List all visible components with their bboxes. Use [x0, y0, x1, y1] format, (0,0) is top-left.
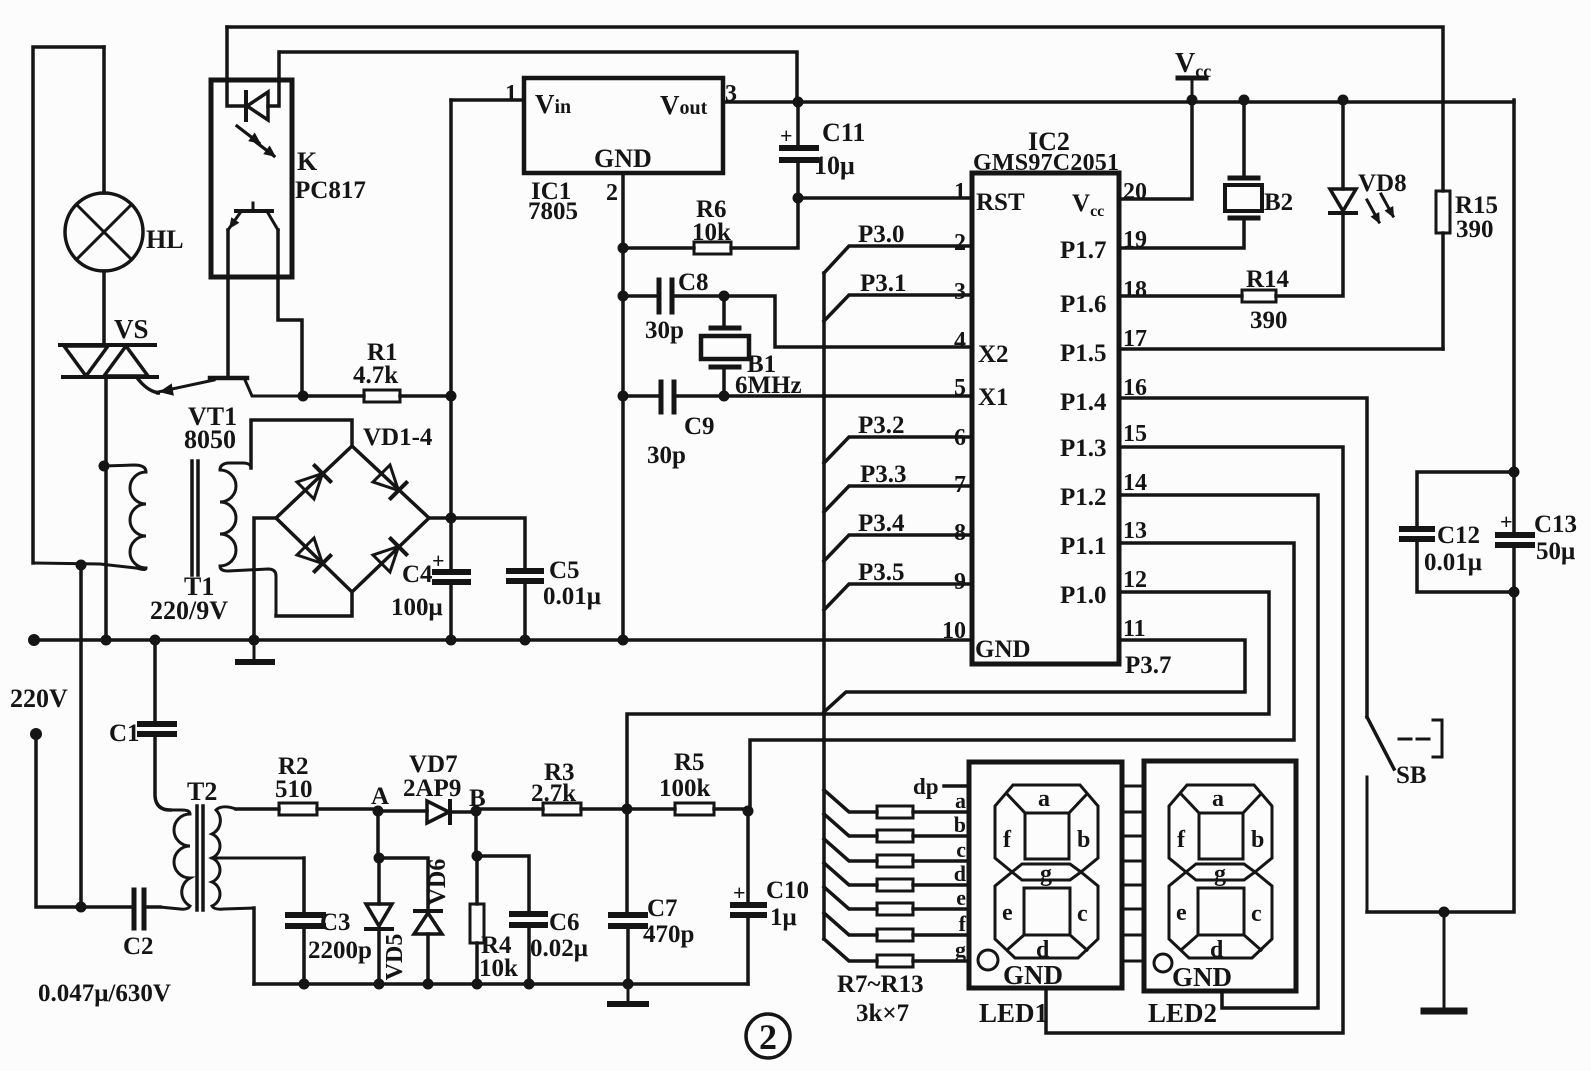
- wire: opto LED anode up to rail 2: [268, 52, 279, 106]
- resistor R5: [675, 803, 714, 815]
- triac VS: [60, 345, 157, 377]
- svg-text:X2: X2: [978, 341, 1009, 368]
- svg-text:8: 8: [954, 520, 966, 546]
- wire: opto LED cathode from top rail: [227, 27, 244, 106]
- resonator B2: [1225, 178, 1262, 218]
- wire: P1.4 pin16 to switch SB: [1119, 398, 1367, 717]
- diode VD6: [414, 911, 442, 934]
- svg-text:C12: C12: [1437, 522, 1480, 549]
- diode VD4 (bottom to right): [373, 539, 406, 572]
- resistor R6: [694, 242, 731, 254]
- svg-text:P1.6: P1.6: [1060, 291, 1107, 318]
- svg-text:d: d: [1210, 937, 1224, 963]
- svg-text:1μ: 1μ: [770, 904, 797, 931]
- svg-text:4: 4: [954, 328, 966, 354]
- svg-text:dp: dp: [913, 774, 939, 799]
- bridge diamond VD1-4: [276, 446, 429, 592]
- svg-text:f: f: [959, 911, 967, 936]
- svg-text:P1.5: P1.5: [1060, 340, 1107, 367]
- svg-text:9: 9: [954, 569, 966, 595]
- wire: P3.2 stub pin6: [824, 437, 972, 463]
- svg-text:a: a: [1038, 786, 1050, 812]
- svg-text:GND: GND: [975, 636, 1031, 663]
- svg-text:4.7k: 4.7k: [353, 362, 398, 389]
- crystal B1 6MHz: [701, 328, 749, 367]
- svg-text:C13: C13: [1534, 511, 1577, 538]
- wire: R3 to C7 node and R5: [581, 807, 675, 811]
- wire: node A down: [376, 811, 380, 858]
- svg-text:C4: C4: [402, 561, 433, 588]
- wire: bus to C1: [153, 640, 157, 721]
- svg-text:20: 20: [1123, 179, 1147, 205]
- svg-text:100μ: 100μ: [391, 594, 443, 621]
- wire: RST node to pin1: [798, 196, 972, 200]
- svg-text:LED2: LED2: [1148, 998, 1217, 1028]
- transformer T2: [160, 806, 304, 910]
- VD8 light arrows: [1367, 194, 1393, 222]
- wire: VD5 to rail: [377, 930, 381, 984]
- wire: C13 down to switch return: [1367, 548, 1514, 912]
- wire: B branch to C6: [477, 856, 529, 911]
- svg-text:f: f: [1177, 827, 1186, 853]
- resistor R12: [877, 929, 913, 941]
- svg-text:X1: X1: [978, 384, 1009, 411]
- wire: +5V to B2: [1242, 100, 1246, 176]
- wire: bus tap segment a: [824, 790, 877, 812]
- wire: P3.5 stub pin9: [824, 584, 972, 610]
- wire: P3.0 stub pin2: [824, 246, 972, 273]
- wire: R2 to node A: [317, 807, 378, 811]
- wire: +9V rail (Vin column): [449, 100, 453, 568]
- svg-text:RST: RST: [976, 189, 1025, 216]
- display LED2 body: [1144, 761, 1296, 991]
- svg-text:C7: C7: [647, 895, 678, 922]
- optocoupler K body: [211, 80, 292, 277]
- resistor R1: [364, 390, 400, 402]
- wire: 220V leg B to C2: [36, 734, 131, 907]
- svg-text:P1.4: P1.4: [1060, 389, 1107, 416]
- wire: VD6 to rail: [426, 934, 430, 984]
- switch SB: [1367, 717, 1442, 912]
- capacitor C6: [512, 914, 545, 925]
- capacitor C1: [140, 724, 174, 734]
- wire: node to B1 top: [722, 296, 726, 325]
- wire: B to R3: [476, 807, 543, 811]
- wire: +5V to C11: [796, 102, 800, 145]
- svg-text:C10: C10: [766, 877, 809, 904]
- resistor R8: [877, 830, 913, 842]
- wire: top rail 1 to R15: [227, 27, 1443, 191]
- resistor R3: [543, 803, 581, 815]
- svg-text:50μ: 50μ: [1536, 538, 1575, 565]
- opto LED diode: [246, 92, 268, 120]
- wire: P1.0 pin12 to R3/R5 node: [627, 592, 1269, 809]
- wire: T1 secondary bottom to bridge AC2: [276, 592, 352, 616]
- capacitor C12: [1402, 529, 1432, 539]
- svg-text:GMS97C2051: GMS97C2051: [973, 150, 1119, 176]
- svg-text:1: 1: [954, 179, 966, 205]
- ground symbol at bus: [238, 640, 272, 662]
- wire: B1 bottom to X1 node: [722, 370, 726, 396]
- opto light arrows: [237, 126, 274, 156]
- svg-text:10μ: 10μ: [814, 151, 855, 180]
- svg-text:SB: SB: [1396, 762, 1427, 789]
- svg-text:a: a: [1212, 786, 1224, 812]
- wire: C6 to rail: [527, 928, 531, 984]
- diode VD1 (lower-left to top): [297, 466, 330, 499]
- wire: VD7 to node B: [450, 810, 476, 814]
- diode VD2 (top to right): [373, 465, 406, 498]
- svg-text:3k×7: 3k×7: [856, 1000, 909, 1027]
- svg-text:C8: C8: [678, 269, 709, 296]
- wire: detector ground rail: [254, 982, 748, 986]
- wire: R5 to C10 node: [714, 807, 748, 811]
- svg-text:11: 11: [1123, 616, 1146, 642]
- wire: bus tap segment e: [824, 887, 877, 909]
- wire: R10 to LED1 pin d: [913, 883, 969, 887]
- wire: lamp to triac: [102, 271, 106, 345]
- ground symbol bottom right: [1424, 912, 1464, 1011]
- diode VD7 2AP9: [427, 801, 450, 823]
- resistor R10: [877, 879, 913, 891]
- capacitor C7: [611, 915, 645, 926]
- wire: C10 node down: [746, 811, 750, 902]
- svg-text:2AP9: 2AP9: [403, 775, 461, 802]
- wire: C2 to T2 primary: [146, 905, 160, 909]
- LED2 decimal point: [1154, 954, 1172, 972]
- svg-text:30p: 30p: [647, 442, 686, 469]
- svg-text:R7~R13: R7~R13: [837, 971, 924, 998]
- wire: C9 to X1 node: [676, 394, 724, 398]
- resistor R11: [877, 903, 913, 915]
- svg-text:C6: C6: [549, 909, 580, 936]
- wire: left 220V rail up and over to lamp: [33, 47, 104, 563]
- svg-text:13: 13: [1123, 518, 1147, 544]
- svg-text:100k: 100k: [659, 775, 711, 802]
- terminal 220V leg B: [30, 728, 42, 740]
- svg-text:C2: C2: [123, 933, 154, 960]
- capacitor C5: [509, 571, 541, 581]
- LED VD8: [1330, 189, 1356, 213]
- wire: bus tap segment b: [824, 814, 877, 836]
- wire: GND column to R6: [623, 246, 694, 250]
- svg-text:P3.4: P3.4: [858, 510, 905, 537]
- wire: T2 tap to C3: [302, 858, 306, 912]
- wire: C7 to rail: [626, 929, 630, 984]
- wire: C10 to rail: [746, 918, 750, 984]
- svg-text:15: 15: [1123, 421, 1147, 447]
- LED1 decimal point: [978, 950, 998, 970]
- svg-text:GND: GND: [1172, 962, 1232, 992]
- svg-text:2: 2: [954, 230, 966, 256]
- wire: rail 2 opto to +5V: [281, 52, 797, 102]
- wire: C8 to crystal node: [674, 294, 724, 298]
- svg-text:d: d: [954, 861, 966, 886]
- wire: to C9: [623, 394, 659, 398]
- wire: X1 node to pin5: [724, 394, 972, 398]
- svg-text:R15: R15: [1455, 192, 1498, 219]
- wire: to C8: [623, 294, 657, 298]
- wire: VT1 node to R1: [303, 394, 364, 398]
- wire: T1 bottom tie to C2 node: [79, 563, 83, 907]
- wire: VD8 to R14: [1276, 215, 1343, 296]
- wire: A to VD6: [379, 858, 428, 910]
- wire: R8 to LED1 pin b: [913, 834, 969, 838]
- svg-text:VD8: VD8: [1358, 170, 1407, 197]
- svg-text:2200p: 2200p: [308, 937, 372, 964]
- svg-text:P1.0: P1.0: [1060, 582, 1107, 609]
- wire: C3 to rail: [302, 929, 306, 984]
- capacitor C11: [782, 148, 816, 160]
- svg-text:K: K: [297, 147, 318, 176]
- opto phototransistor: [228, 203, 278, 230]
- wire: right +5V column: [1512, 100, 1516, 532]
- svg-text:18: 18: [1123, 277, 1147, 303]
- wire: R14 to P1.6 pin18: [1119, 294, 1242, 298]
- wire: R7 to LED1 pin a: [913, 810, 969, 814]
- wire: C1 to T2 primary top: [155, 737, 170, 810]
- svg-text:0.01μ: 0.01μ: [543, 583, 601, 610]
- svg-text:P3.7: P3.7: [1125, 652, 1172, 679]
- svg-text:5: 5: [954, 375, 966, 401]
- wire: R12 to LED1 pin f: [913, 933, 969, 937]
- svg-text:2.7k: 2.7k: [531, 780, 576, 807]
- wire: T2 secondary top to R2: [236, 807, 279, 811]
- svg-text:c: c: [1251, 901, 1262, 927]
- wire: R13 to LED1 pin g: [913, 959, 969, 963]
- wire: P3.7 pin11 to bus: [824, 640, 1245, 712]
- wire: crystal node to X2 pin4: [724, 296, 972, 347]
- resistor R13: [877, 955, 913, 967]
- svg-text:R14: R14: [1246, 266, 1290, 293]
- capacitor C3: [288, 915, 323, 926]
- capacitor C2: [134, 890, 144, 928]
- wire: R4 to rail: [475, 943, 479, 984]
- svg-text:P3.2: P3.2: [858, 412, 905, 439]
- svg-text:e: e: [1176, 900, 1187, 926]
- svg-text:b: b: [1077, 827, 1090, 853]
- svg-text:e: e: [956, 885, 966, 910]
- svg-text:220V: 220V: [10, 684, 68, 713]
- svg-text:+: +: [780, 123, 793, 148]
- svg-text:2: 2: [759, 1017, 777, 1057]
- wire: triac gate curve: [138, 379, 160, 393]
- svg-text:P3.3: P3.3: [860, 461, 907, 488]
- svg-text:g: g: [1040, 861, 1052, 887]
- wire: node A to VD7: [378, 809, 427, 813]
- svg-text:T2: T2: [187, 777, 217, 806]
- svg-text:510: 510: [275, 776, 313, 803]
- svg-text:30p: 30p: [645, 317, 684, 344]
- wire: R9 to LED1 pin c: [913, 859, 969, 863]
- resistor R15: [1436, 191, 1450, 233]
- wire: bus tap segment f: [824, 913, 877, 935]
- svg-text:VS: VS: [114, 314, 149, 344]
- wire: +5V to VD8: [1341, 100, 1345, 189]
- capacitor C8: [659, 280, 672, 312]
- svg-text:C5: C5: [549, 557, 580, 584]
- wire: bus tap segment c: [824, 839, 877, 861]
- transistor VT1: [158, 378, 303, 396]
- svg-text:VD7: VD7: [409, 751, 458, 778]
- wire: P1.3 pin15 to LED1 common: [1046, 447, 1343, 1033]
- wire: Vin pin 1 lead: [451, 98, 524, 102]
- svg-text:+: +: [733, 880, 746, 905]
- wire: C5 to bus: [523, 584, 527, 640]
- svg-text:VD1-4: VD1-4: [363, 424, 433, 451]
- junction dots: [793, 97, 804, 108]
- capacitor C4: [435, 572, 468, 582]
- svg-text:C11: C11: [822, 118, 865, 147]
- svg-text:10k: 10k: [692, 219, 731, 246]
- wire: C4 to bus: [449, 585, 453, 640]
- wire: bridge plus to +9V rail: [429, 516, 451, 520]
- capacitor C9: [661, 382, 674, 412]
- diode VD5: [366, 904, 392, 929]
- wire: T1 secondary top to bridge AC1: [251, 420, 352, 468]
- svg-text:1: 1: [505, 81, 517, 107]
- wire: R15 down: [1441, 233, 1445, 349]
- svg-text:P1.3: P1.3: [1060, 435, 1107, 462]
- resistor R14: [1242, 290, 1276, 302]
- wire: C11 to RST node: [796, 163, 800, 198]
- svg-text:P1.7: P1.7: [1060, 237, 1107, 264]
- svg-text:8050: 8050: [184, 425, 236, 454]
- svg-text:0.047μ/630V: 0.047μ/630V: [38, 980, 171, 1007]
- resistor R2: [279, 803, 317, 815]
- wire: P3.1 stub pin3: [824, 295, 972, 321]
- wire: R1 to +9V rail: [400, 394, 451, 398]
- wire: opto emitter to VT1 base: [226, 230, 230, 377]
- wire: B2 to P1.7 pin19: [1119, 221, 1244, 248]
- svg-text:0.02μ: 0.02μ: [530, 935, 588, 962]
- svg-text:GND: GND: [594, 144, 652, 173]
- svg-text:b: b: [954, 812, 966, 837]
- svg-text:+: +: [1500, 509, 1513, 534]
- wire: T2 secondary bottom to rail: [252, 908, 256, 984]
- wires: LED1-LED2 interconnect stubs: [1122, 785, 1144, 788]
- svg-text:LED1: LED1: [979, 998, 1048, 1028]
- wire: B to R4: [475, 856, 479, 904]
- wire: P3.4 stub pin8: [824, 535, 972, 561]
- wire: triac MT1 down to bus: [104, 377, 108, 640]
- svg-text:P1.2: P1.2: [1060, 484, 1107, 511]
- svg-text:470p: 470p: [643, 921, 694, 948]
- svg-text:f: f: [1003, 827, 1012, 853]
- wire: segment signal bus: [822, 273, 826, 939]
- wire: Vcc pin20 up: [1119, 100, 1192, 199]
- wire: P1.1 pin13 to R5/C10 node: [750, 543, 1294, 811]
- power symbol Vcc: [1178, 78, 1206, 100]
- wire: bus tap segment d: [824, 863, 877, 885]
- svg-text:P3.5: P3.5: [858, 559, 905, 586]
- svg-text:3: 3: [954, 279, 966, 305]
- wire: lamp top feed: [102, 47, 106, 193]
- wire: A to VD5: [377, 858, 381, 904]
- wire: C12 bottom loop: [1417, 542, 1514, 592]
- svg-text:e: e: [1002, 900, 1013, 926]
- svg-text:c: c: [956, 837, 966, 862]
- resistor R4: [470, 904, 484, 943]
- wire: dp stub: [944, 784, 969, 788]
- svg-text:12: 12: [1123, 567, 1147, 593]
- svg-text:g: g: [955, 937, 966, 962]
- ground symbol below C7: [610, 984, 646, 1004]
- terminal 220V leg A: [28, 634, 40, 646]
- wire: C12 top loop: [1417, 472, 1514, 525]
- wire: R11 to LED1 pin e: [913, 907, 969, 911]
- svg-text:7805: 7805: [528, 198, 578, 225]
- svg-text:c: c: [1077, 901, 1088, 927]
- wire: node B down: [474, 811, 478, 856]
- wire: bridge minus to ground bus: [254, 518, 276, 640]
- wire: P1.2 pin14 to LED2 common: [1119, 495, 1318, 1008]
- wire: +5V rail from Vout: [723, 100, 1514, 104]
- svg-text:220/9V: 220/9V: [150, 596, 228, 625]
- svg-text:390: 390: [1250, 307, 1288, 334]
- wire: P3.3 stub pin7: [824, 486, 972, 512]
- diode VD3 (left to bottom): [297, 538, 330, 571]
- svg-text:P3.1: P3.1: [860, 270, 907, 297]
- LED2 7-segment digit: [1169, 785, 1272, 958]
- capacitor C13: [1498, 535, 1532, 545]
- svg-text:B2: B2: [1264, 189, 1293, 216]
- svg-text:C9: C9: [684, 413, 715, 440]
- svg-text:a: a: [955, 788, 966, 813]
- svg-text:C1: C1: [109, 720, 140, 747]
- svg-text:PC817: PC817: [295, 177, 366, 204]
- svg-text:GND: GND: [1003, 960, 1063, 990]
- wire: IC1 GND column: [621, 173, 625, 640]
- resistor R7: [877, 806, 913, 818]
- svg-text:2: 2: [606, 180, 618, 206]
- svg-text:P3.0: P3.0: [858, 221, 905, 248]
- svg-text:14: 14: [1123, 470, 1147, 496]
- svg-text:b: b: [1251, 827, 1264, 853]
- svg-text:10k: 10k: [479, 955, 518, 982]
- svg-text:390: 390: [1456, 216, 1494, 243]
- wire: R15 to P1.5 pin17: [1119, 347, 1443, 351]
- wire: opto collector to R1 node: [278, 230, 302, 396]
- wire: R6 to RST node: [731, 198, 798, 248]
- svg-text:VD5: VD5: [382, 934, 408, 981]
- display LED1 body: [969, 762, 1122, 988]
- wire: C7 node down: [625, 809, 629, 911]
- svg-text:g: g: [1214, 861, 1226, 887]
- svg-text:P1.1: P1.1: [1060, 533, 1107, 560]
- figure number 2: [746, 1014, 790, 1058]
- svg-text:0.01μ: 0.01μ: [1424, 549, 1482, 576]
- LED1 7-segment digit: [995, 785, 1098, 958]
- svg-text:HL: HL: [146, 225, 184, 254]
- svg-text:R5: R5: [674, 749, 705, 776]
- resistor R9: [877, 855, 913, 867]
- wire: branch to C5: [451, 518, 525, 567]
- transformer T1: [36, 461, 276, 616]
- IC1 7805 regulator body: [524, 78, 723, 173]
- svg-text:+: +: [432, 548, 445, 573]
- wire: bus tap segment g: [824, 939, 877, 961]
- lamp HL: [65, 193, 143, 271]
- capacitor C10: [733, 905, 764, 915]
- svg-text:VD6: VD6: [425, 859, 451, 906]
- IC2 GMS97C2051 body: [972, 173, 1119, 664]
- svg-text:C3: C3: [320, 909, 351, 936]
- wire: ground bus to IC2 pin10: [35, 638, 970, 642]
